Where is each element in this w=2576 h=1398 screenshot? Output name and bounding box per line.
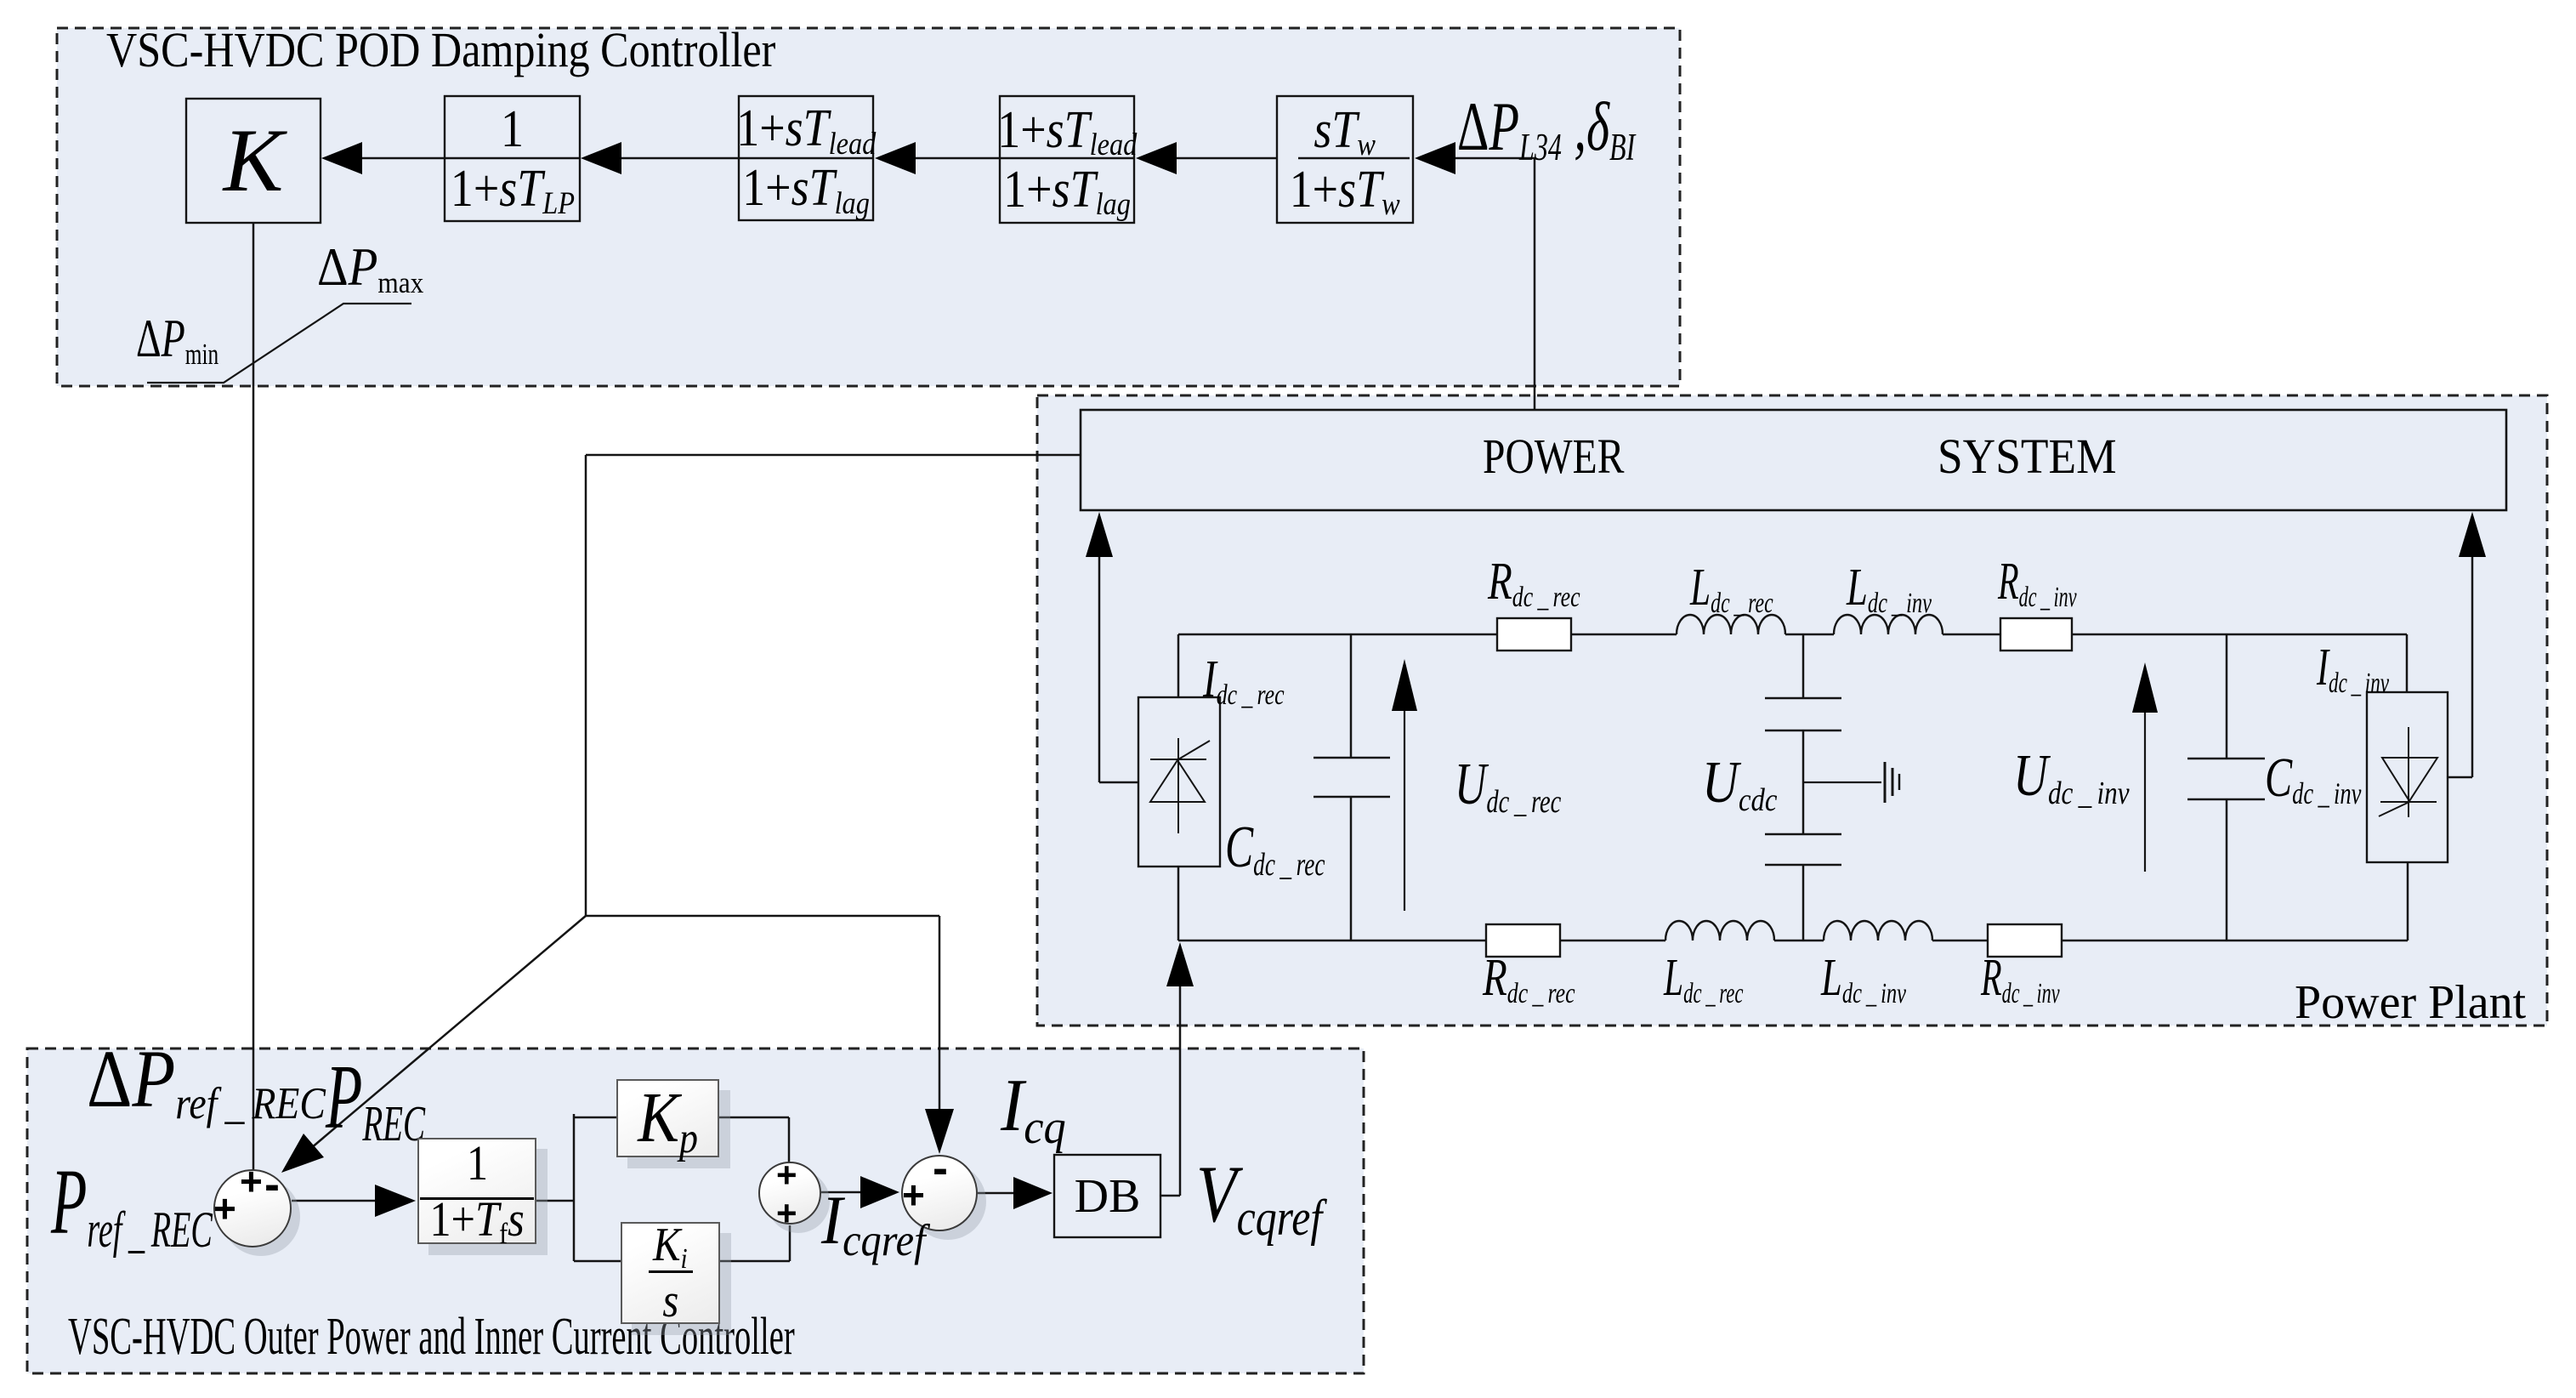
inverter converter valve box (2367, 692, 2448, 862)
arrow up into POWER SYSTEM (right) (2459, 512, 2486, 557)
arrow into TLP (581, 142, 621, 174)
wire C_dc_rec bottom lead (1350, 797, 1353, 941)
wire C_dc_inv top lead (2226, 634, 2228, 759)
wire bottom rail R_dc_inv to inverter (2062, 940, 2408, 942)
resistor R_dc_rec (top) (1497, 618, 1571, 651)
wire bottom rail L_dc_inv to R_dc_inv (1932, 940, 1988, 942)
arrow into summing junction 3 (860, 1176, 899, 1208)
resistor R_dc_inv (top) (2000, 618, 2072, 651)
inductor L_dc_rec (bottom) (1665, 921, 1774, 941)
wire C_dc_inv bottom lead (2226, 799, 2228, 941)
rectifier top lead (1177, 634, 1180, 697)
wire to Kp (574, 1117, 616, 1119)
wire TF to split (536, 1200, 574, 1202)
wire inverter AC side lead (2448, 776, 2472, 779)
title POD (106, 26, 775, 75)
summing junction 2 output wire (821, 1191, 860, 1194)
lead-lag block 2 (739, 96, 873, 220)
rectifier converter valve box (1138, 697, 1220, 867)
lead-lag block 1 (1000, 96, 1134, 223)
capacitor U_cdc upper (1765, 697, 1841, 700)
label L_dc_rec bottom (1664, 952, 1744, 1004)
wire top rail R_dc_rec to L_dc_rec (1571, 634, 1677, 636)
label C_dc_rec (1225, 818, 1325, 878)
rectifier bottom lead (1177, 867, 1180, 941)
feedback tap from POWER SYSTEM (586, 454, 1081, 457)
wire LL2 to TLP (621, 157, 739, 160)
inductor L_dc_inv (bottom) (1824, 921, 1932, 941)
arrow up into POWER SYSTEM (left) (1086, 512, 1113, 557)
diagonal wire P_REC (294, 916, 586, 1162)
arrow into LL1 (1136, 142, 1177, 174)
wire to Ki (574, 1260, 621, 1263)
wire top rail rectifier to R_dc_rec (1178, 634, 1497, 636)
saturation limiter symbol (147, 304, 411, 383)
label Power Plant (2295, 979, 2526, 1026)
label R_dc_rec top (1488, 555, 1580, 608)
deadband block DB (1054, 1155, 1160, 1237)
VSC-HVDC POD Damping Controller enclosure (57, 28, 1680, 386)
gain block K (186, 99, 321, 223)
resistor R_dc_inv (bottom) (1988, 924, 2062, 957)
inductor L_dc_inv (top) (1834, 615, 1943, 634)
arrow V_cqref up into DC bus (1166, 942, 1194, 986)
label dP_L34, delta_BI (1457, 92, 1635, 162)
LL1 fraction (1000, 96, 1134, 223)
label V_cqref (1196, 1154, 1322, 1235)
split riser (573, 1114, 576, 1261)
summing junction 1 output wire (292, 1200, 375, 1202)
DB text (1054, 1155, 1160, 1237)
arrow into washout (1415, 142, 1455, 174)
wire bottom rail R_dc_rec to L_dc_rec (1560, 940, 1665, 942)
label U_cdc (1702, 753, 1777, 813)
inverter bottom lead (2407, 862, 2409, 941)
label dP_min (136, 311, 218, 366)
ground (1885, 762, 1899, 803)
arrow into LL2 (875, 142, 916, 174)
inductor L_dc_rec (top) (1677, 615, 1785, 634)
label U_dc_inv (2013, 747, 2130, 806)
washout fraction (1277, 96, 1413, 223)
wire TLP to K (361, 157, 445, 160)
TLP fraction (445, 96, 580, 221)
K output wire down to summing junction (252, 223, 255, 1170)
wire bottom rail junction node U_cdc (1774, 940, 1824, 942)
label dP_max (317, 240, 423, 294)
label P_REC (326, 1052, 425, 1144)
title outer controller (68, 1310, 795, 1363)
label R_dc_inv bottom (1981, 952, 2060, 1004)
arrow into K (321, 142, 362, 174)
wire Ki to summing junction 2 (720, 1260, 790, 1263)
arrow into 1/(1+Tf s) (375, 1185, 416, 1217)
label U_dc_rec (1455, 755, 1561, 815)
wire LL1 to LL2 (914, 157, 1000, 160)
input drop wire to power system (1534, 158, 1536, 410)
label C_dc_inv (2265, 750, 2361, 806)
capacitor U_cdc lower (1765, 833, 1841, 836)
VSC-HVDC Outer Power and Inner Current Controller enclosure (27, 1048, 1364, 1373)
low-pass block 1/(1+sT_LP) (445, 96, 580, 221)
label P_ref_REC (51, 1155, 213, 1248)
wire inverter top lead (2406, 634, 2409, 692)
summing junction 2 (758, 1162, 821, 1225)
arrow I_cq into summing junction 3 (925, 1109, 954, 1154)
label I_dc_inv (2317, 641, 2389, 694)
washout block sTw/(1+sTw) (1277, 96, 1413, 223)
block 1/(1+Tf s) (417, 1138, 536, 1244)
wire rectifier AC side lead (1099, 781, 1138, 784)
label I_dc_rec (1203, 653, 1285, 706)
POWER SYSTEM text (1483, 432, 1624, 481)
label dP_ref_REC (87, 1038, 326, 1120)
summing junction 3 (901, 1155, 978, 1231)
Power Plant enclosure (1037, 395, 2547, 1026)
inverter thyristor symbol (2379, 727, 2437, 817)
wire top rail R_dc_inv to inverter (2072, 634, 2407, 636)
block Ki/s (621, 1222, 720, 1324)
LL2 fraction (739, 96, 873, 220)
capacitor C_dc_inv (2187, 758, 2265, 760)
wire inverter to POWER SYSTEM (right riser) (2471, 556, 2474, 777)
rectifier thyristor symbol (1150, 738, 1210, 833)
summing junction 3 output wire (978, 1192, 1013, 1195)
label L_dc_inv bottom (1821, 952, 1906, 1004)
wire top rail junction node U_cdc (1785, 634, 1834, 636)
input wire dPL34 (1455, 157, 1535, 160)
wire U_cdc middle lead (1802, 730, 1805, 834)
summing junction 1 (213, 1169, 292, 1247)
label R_dc_inv top (1998, 555, 2077, 608)
wire C_dc_rec top lead (1350, 634, 1353, 758)
wire to I_cq (586, 915, 939, 918)
POWER SYSTEM block (1081, 410, 2506, 510)
wire U_cdc top lead (1802, 634, 1805, 698)
fraction bar of Ki/s (649, 1270, 693, 1273)
arrow P_REC into summing junction 1 (281, 1134, 324, 1173)
label R_dc_rec bottom (1483, 952, 1575, 1004)
wire top rail L_dc_inv to R_dc_inv (1943, 634, 2000, 636)
K block text (186, 99, 321, 223)
wire U_cdc bottom lead (1802, 865, 1805, 941)
wire bottom rail rectifier to R_dc_rec (1178, 940, 1486, 942)
wire POWER SYSTEM to rectifier (left riser) (1098, 556, 1101, 782)
arrow into DB (1013, 1177, 1053, 1209)
DB output wire V_cqref (1160, 1195, 1180, 1197)
wire Kp to summing junction 2 (719, 1117, 789, 1119)
wire ground tap (1803, 781, 1881, 783)
voltage arrow U_dc_rec (1404, 710, 1405, 911)
voltage arrow U_dc_inv (2144, 711, 2146, 872)
label I_cqref (821, 1185, 926, 1255)
block Kp (616, 1079, 719, 1157)
wire washout to LL1 (1175, 157, 1277, 160)
label L_dc_rec top (1690, 561, 1773, 614)
label I_cq (1001, 1069, 1066, 1144)
fraction bar of 1/(1+Tf s) (420, 1197, 534, 1200)
label L_dc_inv top (1847, 561, 1932, 614)
capacitor C_dc_rec (1314, 757, 1390, 759)
resistor R_dc_rec (bottom) (1486, 924, 1560, 957)
